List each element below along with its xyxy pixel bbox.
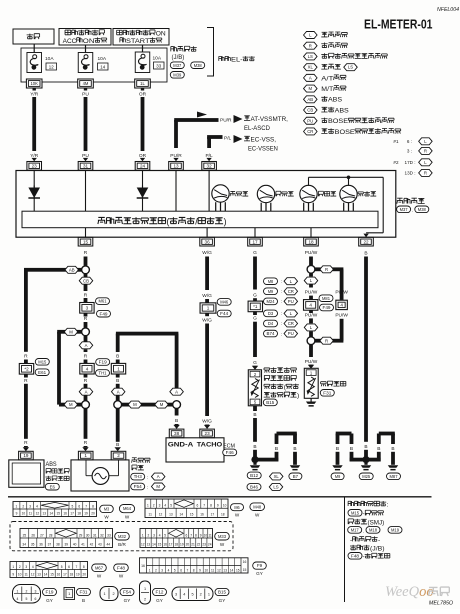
svg-text:36: 36 bbox=[39, 543, 43, 547]
svg-text:*2: *2 bbox=[24, 366, 29, 371]
internal line to bottom pin bbox=[85, 228, 87, 238]
connector ref M64 W bbox=[119, 505, 134, 520]
svg-text:B12: B12 bbox=[250, 473, 259, 478]
svg-text:4: 4 bbox=[17, 597, 19, 601]
svg-text:GY: GY bbox=[46, 598, 53, 603]
legend M M/T 车型 bbox=[304, 85, 346, 93]
fuse block label 保险丝盒 (J/B) bbox=[171, 46, 197, 61]
svg-text:38: 38 bbox=[174, 431, 180, 436]
svg-text:CR: CR bbox=[288, 289, 294, 294]
connector ref M32 B/R bbox=[115, 532, 130, 547]
wire B left leg to connector 1 bbox=[116, 354, 120, 364]
svg-text:M9: M9 bbox=[268, 289, 274, 294]
legend CB 不带 ABS bbox=[304, 107, 350, 115]
svg-text:F48: F48 bbox=[351, 553, 360, 558]
connector ref M67 W bbox=[92, 564, 107, 578]
legend L 左舵车型 bbox=[304, 32, 348, 39]
diode under pin 24 bbox=[137, 186, 149, 200]
svg-text:PU/W: PU/W bbox=[305, 250, 318, 256]
svg-text:13: 13 bbox=[173, 163, 179, 168]
svg-text:B: B bbox=[253, 412, 256, 418]
connector ref M6 W bbox=[231, 504, 244, 518]
svg-text:13: 13 bbox=[37, 573, 41, 577]
svg-text:M24: M24 bbox=[267, 299, 276, 304]
svg-text:B/R: B/R bbox=[118, 542, 126, 547]
speed sensor pin 1 bbox=[78, 451, 93, 460]
meter bottom pin 17 bbox=[248, 237, 263, 246]
svg-text::: : bbox=[281, 299, 282, 304]
wire PU/W below connector 4 bbox=[305, 310, 318, 323]
svg-text:(: ( bbox=[166, 216, 169, 226]
terminal 1L of fuse block bbox=[135, 79, 151, 91]
connector ref M3 W bbox=[100, 505, 114, 519]
svg-text:BOSE: BOSE bbox=[335, 129, 356, 136]
wire P/L to EC-VSS and meter pin 32 bbox=[207, 135, 222, 148]
svg-text:1L: 1L bbox=[140, 81, 145, 86]
wire R branch to ABS (AB models) bbox=[24, 268, 82, 272]
connector ref E6 bbox=[45, 483, 59, 490]
svg-text:M25: M25 bbox=[362, 474, 371, 479]
svg-text:AT-VSSMTR,: AT-VSSMTR, bbox=[250, 116, 288, 123]
svg-text:ON: ON bbox=[156, 30, 166, 37]
svg-text:AB: AB bbox=[69, 267, 75, 272]
svg-text:R: R bbox=[84, 440, 88, 446]
svg-text:ABS: ABS bbox=[335, 107, 350, 114]
in-line connector 1 left bbox=[111, 363, 125, 374]
svg-text:17D :: 17D : bbox=[405, 160, 416, 165]
svg-text:3: 3 bbox=[161, 568, 163, 572]
svg-text:19: 19 bbox=[180, 543, 184, 547]
svg-text:7: 7 bbox=[203, 504, 205, 508]
watermark WeeQoo bbox=[385, 584, 449, 600]
note #2 17D:(L) bbox=[393, 159, 432, 166]
svg-text:22: 22 bbox=[363, 239, 369, 244]
meter bottom pin 15 bbox=[78, 237, 93, 246]
connector ref M15 bbox=[35, 359, 49, 366]
svg-text:13D :: 13D : bbox=[405, 171, 416, 176]
wire label PU bbox=[82, 91, 89, 97]
svg-text:27: 27 bbox=[40, 533, 44, 537]
label 综合仪表 combination meter bbox=[397, 198, 425, 204]
svg-text:23: 23 bbox=[32, 163, 38, 168]
svg-text:.: . bbox=[363, 528, 364, 533]
svg-text:AB: AB bbox=[307, 97, 313, 102]
svg-text:18: 18 bbox=[70, 573, 74, 577]
svg-text:W: W bbox=[255, 513, 260, 518]
svg-text:9: 9 bbox=[200, 533, 202, 537]
svg-text:M46: M46 bbox=[220, 299, 229, 304]
svg-text:5: 5 bbox=[174, 568, 176, 572]
svg-text:1: 1 bbox=[84, 453, 87, 458]
connector ref M38 bbox=[191, 62, 205, 69]
svg-text:3: 3 bbox=[153, 533, 155, 537]
svg-text:B: B bbox=[116, 354, 119, 360]
svg-text:11: 11 bbox=[208, 533, 212, 537]
svg-text:15: 15 bbox=[56, 512, 60, 516]
wire G below *1 to fuel sender bbox=[252, 311, 258, 370]
svg-text:4: 4 bbox=[309, 302, 312, 307]
connector ref F31 bbox=[320, 390, 334, 397]
battery box 电瓶 bbox=[13, 29, 54, 44]
svg-text:W: W bbox=[119, 573, 124, 578]
condition tag XL bbox=[269, 473, 283, 480]
svg-text:B: B bbox=[116, 442, 119, 448]
svg-text:13: 13 bbox=[169, 513, 173, 517]
svg-text:4: 4 bbox=[159, 533, 161, 537]
in-line connector 1 (M46-F44) bbox=[200, 303, 216, 313]
svg-text:13: 13 bbox=[43, 512, 47, 516]
note -保险丝盒、 bbox=[350, 536, 380, 543]
wire B below fuel sender pin 5 bbox=[253, 406, 257, 457]
connector face B15 pill bbox=[172, 587, 213, 601]
svg-text:A: A bbox=[309, 75, 312, 80]
ECM box GND-A TACHO bbox=[166, 438, 224, 462]
svg-text:(J/B): (J/B) bbox=[370, 545, 385, 552]
diode under pin 23 bbox=[28, 186, 40, 200]
internal line pin23 bbox=[33, 170, 35, 211]
svg-text:20: 20 bbox=[82, 573, 86, 577]
svg-text:W/G: W/G bbox=[202, 418, 212, 424]
label 燃油液位传感器单元和燃油泵（燃油液位传感器） bbox=[264, 367, 300, 399]
fuse 10A #12 bbox=[27, 53, 57, 73]
meter top pin 23 bbox=[27, 162, 42, 171]
svg-text:LS: LS bbox=[273, 484, 278, 489]
thermal transmitter box bbox=[304, 368, 318, 398]
connector ref F54 GY bbox=[120, 588, 134, 602]
svg-text:START: START bbox=[126, 38, 149, 45]
svg-text:PU/W: PU/W bbox=[305, 312, 318, 318]
svg-text:19: 19 bbox=[84, 512, 88, 516]
svg-text:TH3: TH3 bbox=[134, 474, 143, 479]
svg-text:M15: M15 bbox=[38, 359, 47, 364]
connector ref M9 bbox=[331, 473, 344, 480]
wire W/G below pin 36 bbox=[202, 250, 212, 303]
ref F48 电气单元 bbox=[348, 553, 390, 561]
wire label P/L at meter pin bbox=[205, 153, 213, 162]
svg-text:B74: B74 bbox=[267, 331, 276, 336]
svg-text:TH1: TH1 bbox=[99, 371, 108, 376]
svg-text:F31: F31 bbox=[80, 590, 89, 595]
svg-text:GY: GY bbox=[124, 598, 131, 603]
fuse 10A #14 bbox=[78, 53, 108, 73]
wire G below pin 17 bbox=[253, 250, 257, 302]
svg-text:A: A bbox=[175, 389, 178, 394]
svg-text:31: 31 bbox=[83, 163, 89, 168]
svg-text:15: 15 bbox=[236, 568, 240, 572]
connector ref F19 bbox=[96, 359, 110, 366]
svg-text:PU/W: PU/W bbox=[305, 290, 318, 296]
svg-text:5: 5 bbox=[61, 565, 63, 569]
svg-text:2: 2 bbox=[19, 565, 21, 569]
connector ref M37 bbox=[170, 62, 184, 69]
svg-text:26: 26 bbox=[31, 533, 35, 537]
ABS unit pin 19 bbox=[19, 451, 34, 460]
svg-text:4: 4 bbox=[340, 302, 343, 307]
svg-text:24: 24 bbox=[208, 543, 212, 547]
variant ref D4 : CR bbox=[264, 320, 298, 327]
fuel sender unit box bbox=[248, 370, 261, 406]
svg-text:M/T: M/T bbox=[321, 86, 333, 93]
connector face F19 round bbox=[13, 585, 41, 604]
svg-text:31: 31 bbox=[93, 533, 97, 537]
svg-text:M15: M15 bbox=[351, 510, 360, 515]
svg-text:EC-VSSEN: EC-VSSEN bbox=[248, 145, 278, 152]
svg-text:): ) bbox=[297, 393, 299, 400]
svg-text:B: B bbox=[377, 446, 380, 452]
svg-text:.: . bbox=[412, 207, 413, 212]
arrow to AT-VSSMTR,EL-ASCD bbox=[234, 115, 289, 132]
svg-text:44: 44 bbox=[107, 543, 111, 547]
note 13D:(R) bbox=[405, 169, 433, 176]
svg-text:GY: GY bbox=[219, 598, 226, 603]
wire ACC to fuse 14 bbox=[85, 45, 87, 53]
svg-text:5: 5 bbox=[191, 593, 193, 597]
internal line to bottom pin bbox=[310, 228, 312, 238]
svg-text:14: 14 bbox=[152, 543, 156, 547]
svg-text:BOSE: BOSE bbox=[328, 118, 349, 125]
svg-text:R: R bbox=[84, 378, 88, 384]
svg-text:2: 2 bbox=[26, 589, 28, 593]
svg-text:W/G: W/G bbox=[202, 293, 212, 299]
condition tag A left leg bbox=[111, 388, 125, 395]
label ECM bbox=[223, 444, 235, 450]
meter bottom pin 36 bbox=[200, 237, 215, 246]
svg-text:7: 7 bbox=[187, 568, 189, 572]
meter top pin 31 bbox=[78, 162, 93, 171]
svg-text:R: R bbox=[325, 338, 328, 343]
svg-text:M38: M38 bbox=[418, 207, 427, 212]
junction dot fuel sender ground bbox=[251, 456, 258, 463]
svg-text:M3: M3 bbox=[104, 506, 110, 511]
connector ref M25 bbox=[359, 473, 373, 480]
junction circle pin18 chain bbox=[307, 265, 315, 273]
svg-text:7: 7 bbox=[85, 504, 87, 508]
M/T link with M tags bbox=[122, 403, 173, 407]
condition tag L lower bbox=[304, 324, 318, 331]
connector face F31 single bbox=[64, 588, 75, 600]
legend R 右舵车型 bbox=[304, 42, 348, 49]
connector face M3 bbox=[13, 502, 97, 517]
svg-text:PU: PU bbox=[82, 91, 89, 97]
svg-text:M33: M33 bbox=[218, 534, 227, 539]
wire R to connector 4 bbox=[84, 349, 88, 363]
svg-text:W: W bbox=[220, 542, 225, 547]
svg-text::: : bbox=[147, 484, 148, 489]
svg-text:23: 23 bbox=[205, 431, 211, 436]
svg-text::: : bbox=[281, 289, 282, 294]
svg-text:ON: ON bbox=[83, 38, 95, 45]
sheet number MEL785O bbox=[429, 601, 454, 607]
connector ref B7 bbox=[289, 473, 302, 480]
branch to ground B7 bbox=[255, 432, 300, 471]
svg-text:42: 42 bbox=[90, 543, 94, 547]
wire W/G to ECM TACHO bbox=[202, 313, 212, 429]
condition tag R lower bbox=[320, 337, 334, 344]
connector ref B12 bbox=[247, 472, 261, 479]
svg-text:4: 4 bbox=[36, 504, 38, 508]
svg-text:4: 4 bbox=[32, 565, 34, 569]
svg-text:1: 1 bbox=[12, 565, 14, 569]
ECM pin 38 GND-A bbox=[169, 429, 184, 438]
svg-text:10K: 10K bbox=[30, 81, 38, 86]
label 热感应塞 bbox=[321, 381, 346, 386]
svg-text:36: 36 bbox=[205, 239, 211, 244]
svg-text:): ) bbox=[224, 216, 227, 226]
junction circle right bbox=[173, 401, 181, 409]
svg-text:5: 5 bbox=[26, 597, 28, 601]
svg-text:2: 2 bbox=[117, 453, 120, 458]
svg-text:B: B bbox=[350, 446, 353, 452]
svg-text:GY: GY bbox=[156, 598, 163, 603]
meter bottom pin 18 bbox=[304, 237, 319, 246]
svg-text::: : bbox=[281, 311, 282, 316]
svg-text:4: 4 bbox=[86, 366, 89, 371]
wire label OR at meter pin bbox=[139, 153, 147, 162]
svg-text:R: R bbox=[84, 316, 88, 322]
note #1 6:(L) bbox=[393, 138, 432, 145]
svg-text:33: 33 bbox=[107, 533, 111, 537]
svg-text:R: R bbox=[24, 378, 28, 384]
note 参见以下内容 bbox=[348, 501, 389, 508]
junction circle bottom of split bbox=[82, 396, 90, 409]
legend LS 带后遮阳帘的左舵车型 bbox=[304, 53, 388, 60]
fuel sender pin 2 bbox=[250, 371, 260, 377]
svg-text:15: 15 bbox=[190, 513, 194, 517]
meter control unit box 综合仪表控制单元（带里程/行程表） bbox=[22, 211, 378, 228]
svg-text:1: 1 bbox=[207, 306, 210, 311]
svg-text:M67: M67 bbox=[95, 565, 104, 570]
svg-text:W: W bbox=[104, 515, 109, 520]
svg-text:A: A bbox=[117, 389, 120, 394]
connector ref F31 B bbox=[77, 588, 91, 602]
svg-text:4: 4 bbox=[168, 568, 170, 572]
connector ref B15 GY bbox=[215, 588, 229, 602]
connector ref M87 bbox=[387, 473, 401, 480]
wire B below pin 22 bbox=[364, 251, 368, 457]
svg-text:B15: B15 bbox=[218, 590, 227, 595]
separator line bbox=[8, 496, 432, 498]
wire PU/R to AT-VSSMTR and meter pin 13 bbox=[174, 112, 218, 149]
svg-text:#1: #1 bbox=[393, 139, 399, 144]
svg-text:18: 18 bbox=[77, 512, 81, 516]
svg-text:M37: M37 bbox=[173, 63, 182, 68]
meter bottom pin 22 bbox=[359, 237, 374, 246]
fuse block J/B bbox=[21, 48, 167, 82]
svg-text:16: 16 bbox=[63, 512, 67, 516]
svg-text:A: A bbox=[157, 474, 160, 479]
svg-text:R: R bbox=[84, 354, 88, 360]
svg-text:R: R bbox=[84, 292, 88, 298]
svg-text:5: 5 bbox=[170, 504, 172, 508]
legend A A/T 车型 bbox=[304, 74, 346, 82]
svg-text:P/L: P/L bbox=[224, 136, 232, 142]
svg-text:3: 3 bbox=[86, 305, 89, 310]
svg-text:11: 11 bbox=[29, 512, 33, 516]
svg-text:1: 1 bbox=[208, 593, 210, 597]
svg-text:9: 9 bbox=[199, 568, 201, 572]
thermal transmitter ground bbox=[306, 398, 316, 406]
svg-text:M6: M6 bbox=[234, 505, 240, 510]
svg-text:MEL785O: MEL785O bbox=[429, 601, 454, 607]
speed sensor return loop top bar bbox=[116, 332, 179, 388]
connector ref F46 bbox=[223, 449, 237, 456]
svg-text:PU: PU bbox=[307, 118, 313, 123]
svg-text:XL: XL bbox=[274, 474, 280, 479]
svg-text:B15: B15 bbox=[266, 400, 275, 405]
note 3:(R) bbox=[407, 147, 432, 154]
svg-text:2: 2 bbox=[22, 504, 24, 508]
svg-text:M19: M19 bbox=[391, 527, 400, 532]
svg-text:F19: F19 bbox=[99, 360, 108, 365]
svg-text:18: 18 bbox=[221, 513, 225, 517]
wire R below connector 3 bbox=[84, 313, 88, 328]
condition tag L upper bbox=[304, 273, 318, 284]
svg-text:PU/R: PU/R bbox=[220, 118, 232, 124]
svg-text:NFEL004: NFEL004 bbox=[437, 7, 459, 13]
connector ref F49 bbox=[97, 310, 111, 317]
svg-text:4: 4 bbox=[183, 593, 185, 597]
terminal 10K of fuse block bbox=[26, 79, 42, 91]
internal line pin24 bbox=[142, 170, 144, 211]
wire R down to ABS unit bbox=[24, 268, 28, 363]
svg-text:43: 43 bbox=[98, 543, 102, 547]
note 接线盒（J/B） bbox=[350, 545, 385, 553]
svg-text:M8: M8 bbox=[268, 279, 274, 284]
ABS actuator and electric unit box bbox=[9, 460, 44, 487]
svg-text:CB: CB bbox=[83, 278, 89, 283]
svg-text:M: M bbox=[156, 484, 160, 489]
svg-text:38: 38 bbox=[56, 543, 60, 547]
connector face M67 bbox=[10, 562, 88, 578]
svg-text:B: B bbox=[293, 446, 296, 452]
connector face F54 bbox=[100, 587, 118, 601]
in-line connector 3 (M61-F49) bbox=[80, 303, 94, 314]
junction circle below pin15 bbox=[82, 266, 90, 274]
wire Y/R fuse12 to meter pin 23 bbox=[32, 97, 36, 151]
legend AB 带 ABS bbox=[304, 96, 343, 104]
variant ref M9 : CR bbox=[264, 288, 298, 295]
svg-text:CR: CR bbox=[307, 129, 313, 134]
svg-text:29: 29 bbox=[79, 533, 83, 537]
thermal transmitter rheostat bbox=[307, 377, 316, 396]
svg-text::: : bbox=[281, 331, 282, 336]
thermal transmitter pin 1 bbox=[306, 370, 316, 376]
svg-text:M: M bbox=[69, 329, 73, 334]
svg-text::: : bbox=[147, 474, 148, 479]
ECM pin 23 TACHO bbox=[200, 429, 215, 438]
branch to ground M9 bbox=[332, 432, 366, 471]
in-line connector 4 (M81-F49) bbox=[304, 300, 318, 311]
connector ref F12 GY bbox=[153, 588, 167, 602]
bracket to EL-POWER note bbox=[207, 28, 214, 77]
fuse 10A #33 bbox=[135, 52, 164, 73]
svg-text::: : bbox=[281, 279, 282, 284]
note 参见 EL-电源 bbox=[219, 56, 255, 63]
svg-text:R: R bbox=[325, 267, 328, 272]
internal line to bottom pin bbox=[206, 228, 208, 238]
internal line to bottom pin bbox=[254, 228, 256, 238]
internal wiring gauges to pin 22 bbox=[309, 176, 384, 238]
svg-text:-: - bbox=[378, 537, 380, 544]
svg-text:M18: M18 bbox=[369, 527, 378, 532]
connector ref M81 bbox=[319, 295, 333, 302]
svg-text:#2: #2 bbox=[393, 160, 399, 165]
svg-text:ACC: ACC bbox=[63, 38, 77, 45]
svg-text:TACHO: TACHO bbox=[197, 442, 223, 449]
svg-text:19: 19 bbox=[23, 453, 29, 458]
svg-text:25: 25 bbox=[23, 533, 27, 537]
connector ref B15 bbox=[263, 399, 277, 406]
